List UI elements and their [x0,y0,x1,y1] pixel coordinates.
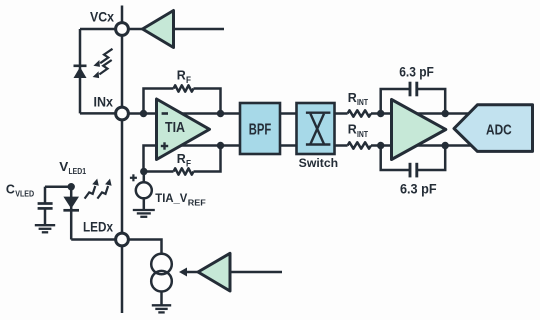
photodiode D1 [74,67,87,78]
svg-text:F: F [186,159,191,169]
wire amp bottom output rail [416,144,471,147]
wire RINT bottom to amp [371,144,392,147]
svg-text:R: R [348,90,358,105]
svg-text:INT: INT [357,97,369,107]
svg-text:LEDx: LEDx [83,219,113,235]
LED light arrows [85,186,109,199]
arrowhead into current source [179,268,187,277]
svg-text:F: F [186,75,191,85]
capacitor CVLED plates [38,202,53,205]
ground at current source [152,305,171,312]
svg-text:BPF: BPF [249,122,272,139]
svg-text:VLED: VLED [15,190,34,199]
junction dot amp output bottom [442,142,449,149]
wire RINT top to amp [371,112,392,115]
wire TIA plus input [144,146,157,172]
wire bottom RF loop [144,170,174,173]
wire TIA VREF source lead [143,172,146,183]
wire Switch to RINT bottom [335,144,348,147]
block Switch [297,103,335,154]
junction dot amp input bottom [377,142,384,149]
svg-text:C: C [6,183,15,197]
junction dot at TIA minus feedback [140,110,147,117]
svg-text:Switch: Switch [299,156,338,170]
wire top RF feedback loop [144,89,174,114]
ground at CVLED [35,225,55,232]
node VCx circle [116,23,129,36]
svg-text:R: R [177,151,187,166]
junction dot at VLED1 [68,183,75,190]
junction dot amp output top [442,110,449,117]
buffer U2 top (to VCx) [143,11,174,48]
wire VCx node to buffer apex [122,28,143,31]
wire VLED1 to capacitor [45,185,71,188]
resistor RF top zigzag [174,85,194,91]
wire bottom RF to output rail [194,146,221,172]
svg-text:VCx: VCx [90,9,114,25]
resistor RINT bottom zigzag [348,142,371,148]
svg-text:6.3 pF: 6.3 pF [399,64,434,79]
wire TIA top output rail to BPF [181,112,241,115]
buffer U4 bottom (LED driver input) [198,253,230,291]
wire INx node to TIA minus input [122,112,157,115]
svg-text:INT: INT [357,129,369,139]
svg-text:REF: REF [188,199,206,208]
svg-text:TIA: TIA [165,120,185,136]
block BPF [240,103,280,154]
capacitor CVLED lead bottom [44,208,47,225]
wire Switch to RINT top [335,112,348,115]
capacitor 6.3pF bottom plates [409,163,412,178]
wire LEDx node to current source [122,240,162,255]
svg-text:R: R [348,122,358,137]
capacitor CVLED lead top [44,187,47,203]
resistor RINT top zigzag [348,110,371,116]
capacitor 6.3pF top plates [409,82,412,97]
wire top cap loop [381,89,410,114]
svg-text:LED1: LED1 [69,167,87,176]
svg-text:TIA_V: TIA_V [155,193,187,205]
TIA plus sign [161,142,168,149]
op-amp U3 integrator amp triangle [392,100,446,160]
TIA minus sign [162,112,168,115]
wire amp top output rail [416,112,470,115]
switch crossbar symbol [306,113,331,145]
junction dot at top RF output [217,110,224,117]
svg-text:6.3 pF: 6.3 pF [400,182,437,197]
wire VCx branch horizontal [80,28,122,31]
ground at TIA_VREF [133,210,155,217]
wire main bus vertical [121,6,124,314]
wire BPF to Switch bottom [280,144,297,147]
junction dot at TIA VREF [140,168,147,175]
block ADC pentagon [454,105,533,152]
node LEDx circle [116,233,129,246]
wire BPF to Switch top [280,112,297,115]
wire buffer apex to arrowhead [185,271,198,274]
wire top RF to output rail [194,89,221,114]
plus sign at TIA_VREF [130,174,137,181]
wire current source to ground [160,291,163,305]
junction dot amp input top [377,110,384,117]
voltage source TIA_VREF circle [136,182,152,198]
wire TIA bottom output rail to BPF [181,144,241,147]
wire LED branch to LEDx node [71,238,122,241]
resistor RF bottom zigzag [174,168,194,174]
wire top buffer input [174,28,225,31]
wire photodiode branch vertical [79,29,82,113]
junction dot at bottom RF output [217,142,224,149]
svg-text:R: R [177,68,187,83]
wire bottom cap loop [381,146,410,171]
svg-text:INx: INx [94,94,114,110]
current source I1 [151,254,172,275]
node INx circle [116,107,129,120]
op-amp U1 TIA triangle [157,99,210,160]
wire LED branch vertical [70,187,73,240]
wire bottom buffer input [230,271,282,274]
photodiode light arrows [99,49,112,75]
wire INx branch horizontal [80,112,122,115]
LED D2 [63,197,79,209]
svg-text:ADC: ADC [486,121,512,138]
